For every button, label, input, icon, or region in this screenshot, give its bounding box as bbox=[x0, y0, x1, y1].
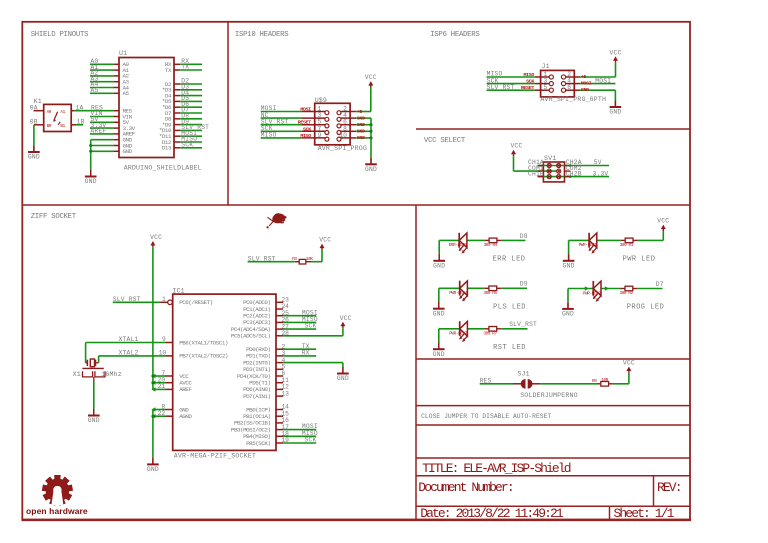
text RST LED bbox=[493, 344, 526, 352]
J1 pin 1 (MISO) with wire and labels bbox=[487, 71, 554, 79]
svg-text:D7: D7 bbox=[656, 281, 664, 288]
frame outer border bbox=[22, 22, 690, 520]
svg-text:300 R2: 300 R2 bbox=[620, 291, 634, 296]
svg-text:+5: +5 bbox=[357, 109, 363, 115]
net label for PWR bbox=[0, 0, 1, 1]
section label ISP10 HEADERS bbox=[235, 31, 289, 39]
wire IC1 pin 4 to ground bbox=[283, 363, 343, 368]
power VCC at IC1 pin 28 bbox=[340, 315, 352, 328]
svg-text:GND: GND bbox=[337, 375, 349, 382]
title block REV text bbox=[657, 480, 681, 495]
junction U1 GND trunk dots bbox=[89, 144, 92, 153]
wire crystal to ground bbox=[93, 377, 95, 410]
svg-text:GND: GND bbox=[357, 122, 365, 128]
svg-text:PLS LED: PLS LED bbox=[493, 303, 526, 311]
net label SLV_RST for RST bbox=[509, 321, 537, 328]
svg-text:X1: X1 bbox=[73, 371, 81, 378]
IC1 pin 5 PD3(INT1) bbox=[243, 364, 285, 374]
wire net label SCK at IC1 pin 19 bbox=[283, 437, 316, 444]
svg-text:PD7(AIN1): PD7(AIN1) bbox=[243, 393, 270, 400]
IC1 pin 24 PC1(ADC1) bbox=[243, 303, 289, 313]
power VCC for PWR LED bbox=[657, 218, 669, 231]
wire K1 0B to ground bbox=[33, 125, 35, 145]
frame divider solder jumper/empty row bbox=[416, 424, 690, 426]
svg-text:open hardware: open hardware bbox=[26, 506, 88, 516]
SV1 crossed pads bbox=[547, 163, 561, 178]
svg-text:SCK: SCK bbox=[181, 142, 193, 149]
U1 pin RX with wire and net label RX bbox=[165, 58, 202, 68]
IC1 pin 7 VCC with wire from VCC trunk bbox=[151, 370, 189, 380]
K1 pin 1B with stub wire bbox=[71, 119, 84, 126]
svg-text:Document Number:: Document Number: bbox=[418, 480, 512, 495]
wire net label MOSI at IC1 pin 25 bbox=[283, 309, 318, 316]
svg-text:3.3V: 3.3V bbox=[593, 170, 609, 177]
svg-text:PWR-LED7: PWR-LED7 bbox=[449, 332, 468, 337]
svg-text:MISO: MISO bbox=[523, 72, 534, 78]
svg-text:300 R1: 300 R1 bbox=[620, 243, 634, 248]
IC1 pin 6 PD4(XCK/T0) bbox=[237, 370, 286, 380]
wire RST LED to resistor bbox=[467, 328, 489, 330]
svg-text:GND: GND bbox=[88, 417, 100, 424]
net label D9 for PLS bbox=[520, 281, 528, 288]
svg-text:XTAL1: XTAL1 bbox=[119, 336, 139, 343]
section label SHIELD PINOUTS bbox=[31, 31, 89, 39]
wire R9 to VCC bbox=[613, 373, 629, 384]
U1 pin D12 with wire and net label MISO bbox=[162, 136, 202, 146]
section label ZIFF SOCKET bbox=[31, 213, 77, 221]
svg-text:MOSI: MOSI bbox=[581, 80, 592, 86]
svg-text:ARDUINO_SHIELDLABEL: ARDUINO_SHIELDLABEL bbox=[124, 164, 202, 171]
svg-text:VCC: VCC bbox=[340, 315, 352, 322]
svg-text:Date: 2013/8/22 11:49:21: Date: 2013/8/22 11:49:21 bbox=[420, 506, 564, 521]
wire PWR LED to resistor bbox=[597, 239, 625, 241]
power VCC above J1 bbox=[609, 49, 621, 77]
svg-text:A5: A5 bbox=[123, 90, 130, 97]
K1 pin 1A bbox=[71, 104, 83, 111]
resistor R4 bbox=[484, 238, 502, 248]
wire net label MOSI at IC1 pin 17 bbox=[283, 423, 318, 430]
svg-text:PWR-LED2: PWR-LED2 bbox=[583, 291, 602, 296]
svg-text:TITLE: ELE-AVR_ISP-Shield: TITLE: ELE-AVR_ISP-Shield bbox=[422, 461, 571, 476]
ground symbol below U1 bbox=[85, 170, 97, 185]
LED diode PWR-LED4 bbox=[449, 281, 468, 302]
svg-text:A5: A5 bbox=[91, 87, 99, 94]
resistor R3 10K bbox=[292, 257, 313, 264]
component SV1 jumper body bbox=[543, 155, 564, 182]
svg-text:SLV_RST: SLV_RST bbox=[509, 321, 537, 328]
svg-text:GND: GND bbox=[357, 135, 365, 141]
LED diode PWR-LED7 bbox=[449, 321, 468, 342]
wire R3 to VCC bbox=[312, 250, 322, 262]
svg-text:300 R4: 300 R4 bbox=[484, 243, 498, 248]
wire SLV_RST to IC1 pin 1 bbox=[113, 301, 160, 303]
ground symbol PROG bbox=[562, 302, 574, 317]
frame divider horizontal mid line bbox=[22, 204, 690, 206]
U$9 pin 9 (MISO) with wire and label bbox=[261, 132, 329, 142]
wire PWR resistor to net bbox=[638, 239, 664, 241]
J1 pin 3 (SCK) with wire and labels bbox=[487, 77, 554, 85]
svg-text:VCC: VCC bbox=[319, 237, 331, 244]
IC1 pin 17 PB3(MOSI/OC2) bbox=[231, 424, 289, 434]
svg-text:MOSI: MOSI bbox=[595, 77, 611, 84]
frame divider above CLOSE JUMPER row bbox=[416, 405, 690, 407]
U1 pin 3.3V with wire and net label 3.3V bbox=[90, 122, 136, 132]
green arrows on PROG wire bbox=[585, 286, 609, 290]
IC1 pin 11 PD5(T1) bbox=[249, 377, 289, 387]
IC1 pin 10 PB7(XTAL2/TOSC2) bbox=[159, 350, 228, 360]
svg-text:10R: 10R bbox=[601, 378, 608, 383]
wire SLV_RST to R3 bbox=[248, 261, 300, 263]
wire XTAL1 down to crystal bbox=[86, 343, 88, 363]
IC1 pin 2 PD0(RXD) bbox=[246, 343, 285, 353]
svg-text:300 R7: 300 R7 bbox=[483, 331, 497, 336]
svg-text:VCC: VCC bbox=[511, 143, 523, 150]
component J1 AVR_SPI_PRG_6PTH body bbox=[540, 63, 606, 103]
crystal X1 16Mhz bbox=[73, 359, 122, 378]
IC1 pin 18 PB4(MISO) bbox=[243, 431, 289, 441]
svg-text:1: 1 bbox=[162, 296, 166, 303]
U1 pin GND1 stub and wire bbox=[91, 137, 133, 144]
ground symbol at IC1 pin 4 bbox=[337, 367, 349, 382]
J1 pin 4 (MOSI) with wire and net label MOSI bbox=[561, 77, 615, 86]
svg-text:AVR_SPI_PROG: AVR_SPI_PROG bbox=[318, 145, 367, 152]
IC1 pin 21 AREF with wire from VCC trunk bbox=[151, 383, 192, 393]
svg-text:D13: D13 bbox=[162, 145, 172, 152]
ground symbol ERR bbox=[433, 254, 445, 269]
U1 pin *D10 with wire and net label SLV_RST bbox=[159, 124, 209, 134]
wire PWR to VCC bbox=[662, 231, 664, 240]
frame bottom thick border bbox=[22, 519, 692, 521]
text PLS LED bbox=[493, 303, 526, 311]
net label D7 for PROG bbox=[656, 281, 664, 288]
wire PWR to ground bbox=[568, 240, 570, 254]
wire RST to ground bbox=[438, 329, 440, 343]
U1 pin TX with wire and net label TX bbox=[165, 64, 202, 74]
net label SLV_RST at pull-up R3 bbox=[248, 255, 276, 262]
junction dots U$9 GND trunk bbox=[370, 123, 373, 139]
decoration rat icon bbox=[267, 213, 287, 228]
frame divider vertical ZIFF/right column bbox=[415, 205, 417, 520]
wire PROG LED to resistor bbox=[601, 288, 625, 290]
svg-text:1B: 1B bbox=[77, 119, 85, 126]
svg-text:RESET: RESET bbox=[298, 120, 312, 126]
junction dots VCC trunk bbox=[151, 375, 154, 385]
svg-text:PWR-LED1: PWR-LED1 bbox=[579, 243, 598, 248]
title block line under TITLE bbox=[416, 475, 690, 477]
LED PWR circuit wire from ground corner bbox=[569, 239, 590, 241]
wire RES to SJ1 bbox=[480, 383, 522, 385]
svg-text:300 R5: 300 R5 bbox=[483, 291, 497, 296]
power VCC above IC1 bbox=[150, 234, 162, 247]
U1 pin D13 with wire and net label SCK bbox=[162, 142, 202, 152]
ground symbol PLS bbox=[433, 302, 445, 317]
IC1 pin 12 PD6(AIN0) bbox=[243, 384, 289, 394]
ground symbol below U$9 bbox=[365, 158, 377, 173]
title block Sheet text bbox=[614, 506, 675, 521]
resistor R9 10R bbox=[592, 378, 613, 386]
U1 pin D7 with wire and net label D7 bbox=[165, 107, 202, 117]
wire VCC to SV1 COM1 bbox=[514, 156, 558, 171]
svg-text:REV:: REV: bbox=[657, 480, 681, 495]
svg-text:SV1: SV1 bbox=[544, 155, 556, 162]
svg-text:VCC: VCC bbox=[150, 234, 162, 241]
svg-text:R3: R3 bbox=[292, 257, 297, 262]
svg-text:0A: 0A bbox=[30, 104, 38, 111]
net label 3.3V bbox=[593, 170, 609, 177]
IC1 pin 23 PC0(ADC0) bbox=[243, 297, 289, 307]
net label D8 for ERR bbox=[520, 233, 528, 240]
U1 pin A5 with wire and net label A5 bbox=[90, 87, 130, 97]
logo open hardware text bbox=[26, 506, 88, 516]
IC1 pin 25 PC2(ADC2) bbox=[243, 310, 289, 320]
junction dot IC1 GND trunk bbox=[151, 415, 154, 418]
title block top line bbox=[416, 457, 690, 459]
U1 pin *D3 with wire and net label D3 bbox=[162, 84, 202, 94]
U$9 pin 4 (GND) with wire and label bbox=[337, 112, 371, 121]
U1 pin VIN with wire and net label VIN bbox=[90, 110, 133, 120]
ground symbol below J1 bbox=[609, 101, 621, 116]
wire U$9 GND trunk bbox=[370, 118, 372, 158]
svg-text:GND: GND bbox=[562, 311, 574, 318]
svg-text:PC6(/RESET): PC6(/RESET) bbox=[179, 299, 213, 306]
LED RST circuit wire from ground corner bbox=[439, 328, 460, 330]
wire PROG resistor to net bbox=[637, 288, 662, 290]
wire XTAL1 with net label bbox=[86, 336, 166, 343]
U1 pin *D6 with wire and net label D6 bbox=[162, 101, 202, 111]
svg-text:SLV_RST: SLV_RST bbox=[487, 84, 515, 91]
U1 pin GND3 stub and wire bbox=[91, 148, 133, 155]
component K1 switch body bbox=[34, 98, 72, 132]
svg-text:GND: GND bbox=[28, 154, 40, 161]
title block TITLE text bbox=[422, 461, 571, 476]
svg-text:ISP10 HEADERS: ISP10 HEADERS bbox=[235, 31, 289, 39]
svg-text:GND: GND bbox=[123, 148, 133, 155]
svg-text:J1: J1 bbox=[542, 63, 550, 70]
svg-text:XTAL2: XTAL2 bbox=[119, 350, 139, 357]
component U1 ARDUINO_SHIELDLABEL body bbox=[119, 50, 202, 171]
svg-text:GND: GND bbox=[609, 109, 621, 116]
svg-text:SCK: SCK bbox=[305, 323, 317, 330]
svg-text:AREF: AREF bbox=[91, 128, 107, 135]
svg-text:21: 21 bbox=[158, 383, 166, 390]
wire XTAL2 with net label bbox=[99, 350, 166, 357]
svg-text:ERR LED: ERR LED bbox=[493, 255, 526, 263]
IC1 pin 20 AVCC with wire from VCC trunk bbox=[151, 377, 192, 387]
wire PROG to ground bbox=[567, 289, 569, 303]
IC1 pin 26 PC3(ADC3) bbox=[243, 317, 289, 327]
svg-text:PC5(ADC5/SCL): PC5(ADC5/SCL) bbox=[231, 333, 271, 340]
J1 pin 6 (GND) with wire to ground bbox=[561, 84, 615, 93]
ground symbol below IC1 bbox=[147, 458, 159, 473]
power VCC above U$9 bbox=[365, 74, 377, 111]
svg-text:MOSI: MOSI bbox=[300, 107, 311, 113]
U1 pin 5V with wire and net label 5V bbox=[90, 116, 130, 126]
svg-text:MISO: MISO bbox=[261, 132, 277, 139]
wire ERR resistor to net bbox=[501, 239, 525, 241]
frame divider ISP6/VCC SELECT bbox=[416, 128, 690, 130]
svg-text:RST LED: RST LED bbox=[493, 344, 526, 352]
svg-text:TX: TX bbox=[165, 67, 172, 74]
svg-text:5V: 5V bbox=[594, 159, 602, 166]
U1 pin A4 with wire and net label A4 bbox=[90, 81, 130, 91]
wire net label MISO at IC1 pin 26 bbox=[283, 316, 318, 323]
svg-text:AREF: AREF bbox=[179, 386, 192, 393]
text ERR LED bbox=[493, 255, 526, 263]
section label ISP6 HEADERS bbox=[430, 31, 480, 39]
svg-text:ZIFF SOCKET: ZIFF SOCKET bbox=[31, 213, 77, 221]
frame divider between SHIELD PINOUTS and ISP10 HEADERS bbox=[227, 22, 229, 205]
net label RES at solder jumper bbox=[480, 378, 492, 385]
wire net label MISO at IC1 pin 18 bbox=[283, 430, 318, 437]
svg-text:U1: U1 bbox=[119, 50, 127, 57]
U1 pin RES, wire RES from K1 and net label RES bbox=[74, 104, 132, 114]
wire PLS resistor to net bbox=[501, 287, 527, 289]
net label SLV_RST at IC1 pin 1 bbox=[113, 296, 141, 303]
U1 pin A1 with wire and net label A1 bbox=[90, 64, 130, 74]
IC1 pin 3 PD1(TXD) bbox=[246, 350, 285, 360]
svg-text:PROG LED: PROG LED bbox=[627, 304, 665, 312]
title block Sheet divider bbox=[609, 506, 611, 519]
svg-text:ERR-LED6: ERR-LED6 bbox=[449, 243, 468, 248]
IC1 pin 22 AGND with wire to GND trunk bbox=[151, 410, 192, 420]
svg-text:B0: B0 bbox=[47, 124, 52, 129]
U1 pin AREF with wire and net label AREF bbox=[90, 128, 136, 138]
IC1 pin 13 PD7(AIN1) bbox=[243, 390, 289, 400]
resistor R2 bbox=[620, 286, 638, 296]
svg-text:5: 5 bbox=[544, 84, 548, 91]
svg-text:RX: RX bbox=[302, 350, 310, 357]
IC1 pin 1 PC6(/RESET) with inversion bubble bbox=[160, 296, 213, 306]
svg-text:GND: GND bbox=[433, 351, 445, 358]
svg-text:9: 9 bbox=[318, 132, 322, 139]
svg-text:CH2B: CH2B bbox=[566, 170, 582, 177]
wire PLS LED to resistor bbox=[467, 287, 489, 289]
svg-text:R9: R9 bbox=[592, 379, 597, 384]
svg-text:SHIELD PINOUTS: SHIELD PINOUTS bbox=[31, 31, 89, 39]
svg-text:22: 22 bbox=[158, 410, 166, 417]
svg-text:MISO: MISO bbox=[300, 133, 311, 139]
U1 pin D2 with wire and net label D2 bbox=[165, 78, 202, 88]
U$9 pin 1 (MOSI) with wire and label bbox=[261, 105, 329, 115]
text PWR LED bbox=[623, 255, 656, 263]
svg-text:0B: 0B bbox=[30, 119, 38, 126]
svg-text:VCC: VCC bbox=[657, 218, 669, 225]
svg-text:SJ1: SJ1 bbox=[517, 370, 529, 377]
U$9 pin 8 (GND) with wire and label bbox=[337, 125, 371, 134]
LED diode ERR-LED6 bbox=[449, 233, 468, 254]
ground symbol PWR bbox=[563, 254, 575, 269]
resistor R7 bbox=[483, 327, 501, 337]
wire SV1 row CH1B-CH2B to 3.3V bbox=[538, 176, 609, 178]
IC1 pin 19 PB5(SCK) bbox=[246, 437, 289, 447]
U1 pin *D9 with wire and net label D9 bbox=[162, 118, 202, 128]
U1 pin D4 with wire and net label D4 bbox=[165, 89, 202, 99]
svg-text:U$9: U$9 bbox=[315, 97, 327, 104]
U$9 pin 6 (GND) with wire and label bbox=[337, 119, 371, 128]
svg-text:A0: A0 bbox=[47, 110, 52, 115]
svg-text:13: 13 bbox=[282, 390, 290, 397]
U1 pin GND2 stub and wire bbox=[91, 142, 133, 149]
SV1 pin stubs bbox=[538, 166, 571, 177]
wire IC1 GND trunk bbox=[152, 410, 154, 459]
svg-text:AVR_SPI_PRG_6PTH: AVR_SPI_PRG_6PTH bbox=[540, 96, 606, 103]
svg-text:PWR-LED4: PWR-LED4 bbox=[449, 291, 468, 296]
LED diode PWR-LED1 bbox=[579, 233, 598, 254]
IC1 pin 16 PB2(SS/OC1B) bbox=[234, 417, 289, 427]
LED PLS circuit wire from ground corner bbox=[439, 287, 460, 289]
ground symbol below K1 bbox=[28, 145, 40, 161]
J1 pin 5 (SLV_RST) with wire and labels bbox=[487, 84, 554, 92]
U1 pin A0 with wire and net label A0 bbox=[90, 58, 130, 68]
svg-text:D9: D9 bbox=[520, 281, 528, 288]
svg-text:PWR LED: PWR LED bbox=[623, 255, 656, 263]
svg-text:1A: 1A bbox=[76, 104, 84, 111]
svg-text:GND: GND bbox=[357, 129, 365, 135]
IC1 pin 15 PB1(OC1A) bbox=[243, 410, 289, 420]
svg-text:GND: GND bbox=[433, 310, 445, 317]
J1 pin 2 (+5) with wire to VCC bbox=[561, 71, 615, 80]
component U$9 AVR_SPI_PROG body bbox=[315, 97, 367, 152]
title block Date text bbox=[420, 506, 564, 521]
svg-text:SOLDERJUMPERNO: SOLDERJUMPERNO bbox=[520, 392, 578, 399]
svg-text:IC1: IC1 bbox=[172, 288, 184, 295]
title block REV divider bbox=[653, 476, 655, 507]
svg-text:SCK: SCK bbox=[303, 126, 311, 132]
U1 pin *D11 with wire and net label MOSI bbox=[159, 130, 202, 140]
svg-text:GND: GND bbox=[85, 178, 97, 185]
logo open hardware gear bbox=[42, 475, 73, 506]
K1 pin 0A bbox=[30, 104, 44, 111]
svg-text:B1: B1 bbox=[60, 124, 65, 129]
title block Document Number text bbox=[418, 480, 512, 495]
svg-text:GND: GND bbox=[147, 466, 159, 473]
svg-text:RESET: RESET bbox=[521, 85, 535, 91]
svg-text:CLOSE JUMPER TO DISABLE AUTO-R: CLOSE JUMPER TO DISABLE AUTO-RESET bbox=[421, 413, 551, 420]
component IC1 AVR-MEGA-PZIF_SOCKET body bbox=[172, 288, 276, 460]
U1 pin D8 with wire and net label D8 bbox=[165, 113, 202, 123]
text CLOSE JUMPER TO DISABLE AUTO-RESET bbox=[421, 413, 551, 420]
U1 pin A3 with wire and net label A3 bbox=[90, 75, 130, 85]
svg-text:GND: GND bbox=[563, 263, 575, 270]
ground symbol RST bbox=[433, 343, 445, 358]
svg-text:AVR-MEGA-PZIF_SOCKET: AVR-MEGA-PZIF_SOCKET bbox=[174, 453, 256, 460]
svg-text:VCC: VCC bbox=[609, 49, 621, 56]
wire IC1 pin 28 to VCC bbox=[283, 328, 343, 336]
wire net label TX at IC1 pin 2 bbox=[283, 343, 316, 350]
U$9 pin 7 (SCK) with wire and label bbox=[261, 125, 329, 135]
U$9 pin 10 (GND) with wire and label bbox=[337, 132, 371, 141]
solder jumper SJ1 bbox=[517, 370, 577, 399]
svg-text:Sheet: 1/1: Sheet: 1/1 bbox=[614, 506, 675, 521]
svg-text:A1: A1 bbox=[60, 110, 65, 115]
svg-text:SCK: SCK bbox=[526, 79, 534, 85]
svg-text:GND: GND bbox=[357, 115, 365, 121]
IC1 pin 4 PD2(INT0) bbox=[243, 357, 285, 367]
svg-text:VCC: VCC bbox=[365, 74, 377, 81]
svg-text:AGND: AGND bbox=[179, 413, 192, 420]
svg-text:+5: +5 bbox=[581, 74, 587, 80]
IC1 pin 27 PC4(ADC4/SDA) bbox=[231, 323, 289, 333]
svg-text:GND: GND bbox=[581, 87, 589, 93]
U$9 pin 3 (NC) with wire and label bbox=[261, 112, 329, 122]
LED ERR circuit wire from ground corner bbox=[439, 239, 459, 241]
wire net label SCK at IC1 pin 27 bbox=[283, 323, 316, 330]
IC1 pin 8 GND with wire to GND trunk bbox=[151, 403, 189, 413]
svg-text:PB6(XTAL1/TOSC1): PB6(XTAL1/TOSC1) bbox=[179, 339, 228, 346]
wire J1 pin6 down to ground bbox=[614, 90, 616, 102]
ground symbol below crystal bbox=[88, 409, 100, 424]
svg-text:TX: TX bbox=[181, 64, 189, 71]
